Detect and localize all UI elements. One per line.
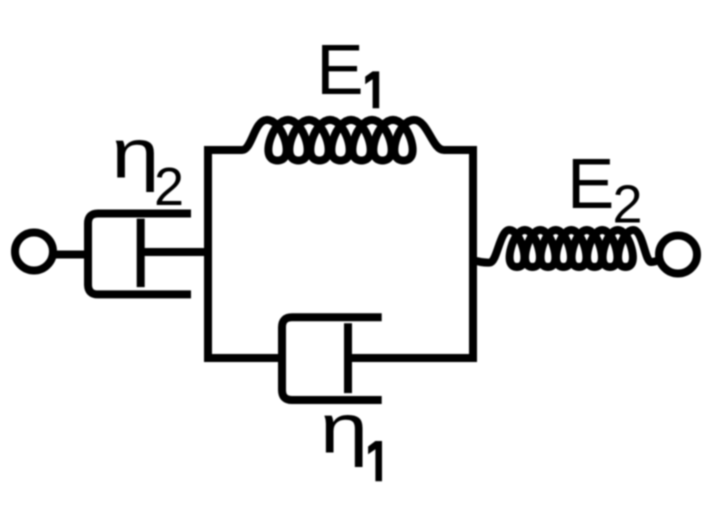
dashpot eta1 cylinder [282, 317, 382, 400]
label E1 [316, 31, 379, 110]
dashpot eta1 piston [344, 323, 352, 393]
svg-text:E: E [316, 31, 363, 110]
node: loop right vertical wire [469, 146, 477, 362]
left terminal circle [15, 233, 53, 271]
dashpot eta2 cylinder [88, 214, 191, 295]
dashpot eta1 piston rod [348, 354, 477, 362]
node: loop left vertical wire [204, 146, 212, 362]
svg-text:2: 2 [613, 174, 643, 234]
label eta1 [320, 390, 382, 482]
svg-text:2: 2 [154, 157, 184, 217]
label E2 [567, 145, 643, 234]
dashpot eta2 piston rod [139, 248, 212, 256]
label eta2 [111, 114, 184, 217]
svg-text:η: η [111, 114, 159, 192]
svg-text:E: E [567, 145, 614, 224]
dashpot eta2 piston [137, 219, 145, 288]
wire: bottom branch into dashpot eta1 [204, 354, 286, 362]
spring E2 (right) [472, 230, 662, 267]
spring E1 (top branch) [204, 120, 477, 161]
wire: left terminal to dashpot eta2 [49, 251, 88, 259]
right terminal circle [659, 236, 697, 274]
svg-text:η: η [320, 390, 368, 468]
